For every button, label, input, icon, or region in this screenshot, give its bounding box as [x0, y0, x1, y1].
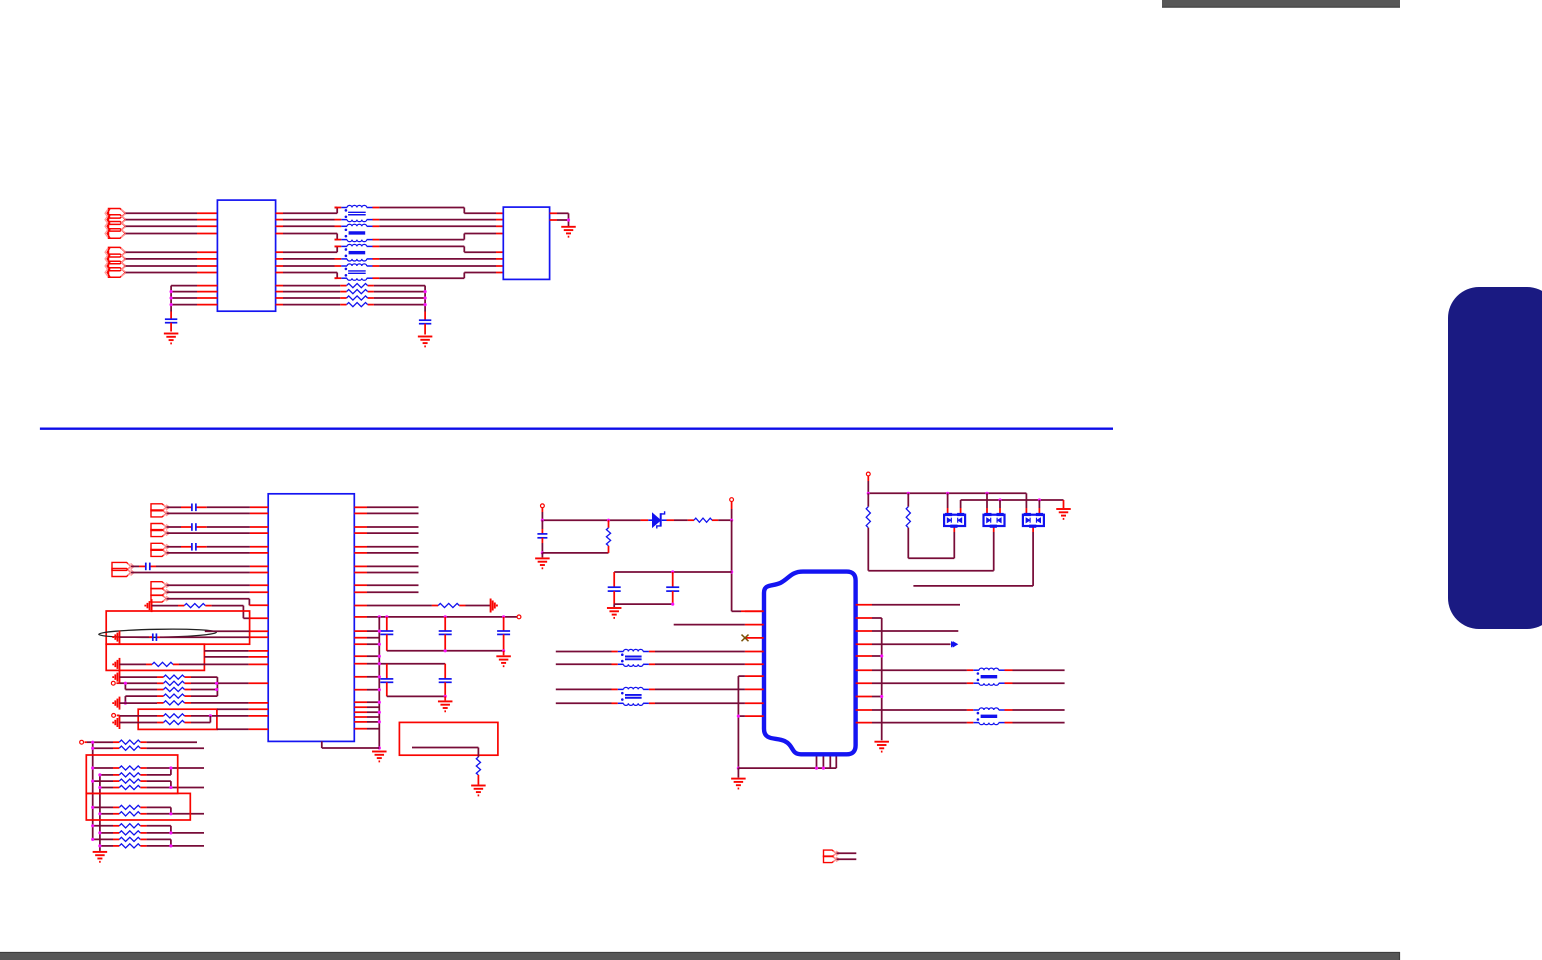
- resistor R-l787.5: [119, 785, 140, 789]
- resistor R-l839.4: [119, 837, 140, 841]
- capacitor C-in3: [192, 543, 196, 551]
- wire box3 row1 leads: [157, 715, 191, 717]
- wire U2 stub y728.7: [354, 728, 379, 730]
- junction circleA: [124, 682, 127, 685]
- wire ladder row2 out: [147, 747, 204, 749]
- RJ45 right pin y722.6: [856, 722, 872, 724]
- resistor R-l807.4: [119, 805, 140, 809]
- wire resbank row2 left lead: [157, 682, 191, 684]
- wire vcc bottom rail: [387, 650, 504, 652]
- RJ45 left pin y689.4: [745, 688, 764, 690]
- off-page connector group2 pin 4: [105, 268, 126, 278]
- junction rightbus y748.0: [378, 746, 381, 749]
- junction rightbus y702.2: [378, 701, 381, 704]
- junction top-right gnd: [567, 218, 570, 221]
- RJ45 right pin y656.0: [856, 655, 872, 657]
- resistor R-l742.2: [119, 740, 140, 744]
- wire bubble to U1 row y213.3: [126, 212, 218, 214]
- ground (jack shield): [731, 779, 746, 789]
- junction bus2 y774.9: [98, 773, 101, 776]
- resistor R-l768.0: [119, 766, 140, 770]
- junction tvsrail 947: [946, 492, 949, 495]
- wire resbank row1 from gnd: [120, 676, 158, 678]
- red highlight box 1: [106, 611, 249, 644]
- pin circle P3: [866, 472, 870, 476]
- resistor R-b5: [164, 701, 185, 705]
- wire ladder row y839.4 leads: [93, 838, 147, 840]
- junction clusterB: [444, 695, 447, 698]
- ground (right termination): [418, 337, 433, 347]
- wire ladder row y832.9 leads: [100, 832, 147, 834]
- net row 6 right wire: [372, 258, 503, 260]
- junction tvsrail2 1000: [998, 498, 1001, 501]
- wire U2 stub y676.8: [354, 676, 379, 678]
- junction shield1: [815, 767, 818, 770]
- wire cap1 to bottom: [541, 538, 543, 553]
- wire pair1 top through cap: [167, 506, 269, 508]
- wire boxR resistor to gnd: [477, 775, 479, 785]
- wire U2 right stub 9: [354, 584, 418, 586]
- wire resbank row5 left lead: [157, 702, 191, 704]
- wire pair2 top through cap: [167, 526, 269, 528]
- ground (ladder): [93, 852, 108, 862]
- resistor R-t4: [347, 303, 368, 307]
- wire T6 left leads: [556, 689, 618, 703]
- wire gnd-resistor row 664.4 to U2: [120, 663, 269, 665]
- capacitor C-m1: [608, 587, 621, 591]
- wire tvs rail1 stems: [948, 493, 1027, 514]
- resistor R-c1: [164, 714, 185, 718]
- junction rightbus y663.7: [378, 662, 381, 665]
- ground (U2 bus): [372, 752, 387, 762]
- resistor R-boxR: [476, 757, 480, 775]
- transformer T7: [973, 668, 1004, 685]
- RJ45 right pin y644.3: [856, 643, 872, 645]
- wire input4 bottom: [131, 572, 268, 574]
- capacitor C-m2 stems: [672, 572, 674, 587]
- wire U2 stub y663.7: [354, 663, 379, 665]
- wire box3 row2 leads: [157, 722, 191, 724]
- ground (left termination): [164, 334, 179, 344]
- junction bus1 y781.1: [91, 780, 94, 783]
- resistor R-b4: [164, 694, 185, 698]
- junction rightbus y712.2: [378, 711, 381, 714]
- pin circle A: [111, 681, 115, 685]
- wire ladder rows9-10 join: [147, 826, 204, 833]
- wire U2 VCC rail: [354, 616, 517, 618]
- ground (jack right bus): [874, 742, 889, 752]
- wire tvs rail2 gnd stem: [1063, 500, 1065, 508]
- capacitor C-v2: [439, 631, 452, 634]
- wire resistor Rp stems: [608, 520, 610, 553]
- transformer T8: [973, 708, 1004, 725]
- resistor R-l781.1: [119, 779, 140, 783]
- wire R-tv1 bottom to TVS2: [868, 528, 993, 571]
- resistor R-l813.8: [119, 812, 140, 816]
- wire U2 right stub 7: [354, 565, 418, 567]
- wire pair1 bottom: [167, 512, 269, 514]
- off-page connector pair3 b: [151, 549, 170, 556]
- wire U2 stub y712.2: [354, 711, 379, 713]
- capacitor C-in1: [192, 504, 196, 512]
- net row 5 right wire: [372, 246, 503, 252]
- net row 1 left wire: [276, 208, 342, 214]
- wire jack right row 604.8 stub: [872, 604, 960, 606]
- wire input5 row3 jog down: [167, 599, 269, 606]
- off-page connector pair1 a: [151, 504, 170, 511]
- junction vccbot1: [444, 649, 447, 652]
- diode D1 anode lead: [641, 519, 649, 521]
- wire resbank row3 right: [191, 689, 217, 691]
- capacitor C-v2 stem2: [444, 634, 446, 650]
- wire tvs rail2 stems: [961, 500, 1040, 515]
- wire ladder row y742.2 leads: [93, 741, 147, 743]
- wire ladder bus2: [99, 775, 101, 851]
- wire J1 pin to ground net: [550, 213, 569, 220]
- ground (top right): [561, 227, 576, 237]
- wire jack gnd stem: [737, 768, 739, 778]
- wire U2 stub y631.1: [354, 630, 379, 632]
- junction vccrail x445.2: [444, 615, 447, 618]
- RJ45 right pin y604.8: [856, 604, 872, 606]
- capacitor C-w1: [380, 679, 393, 682]
- wire ladder rows3-4 join: [147, 768, 204, 775]
- junction mid rail: [730, 570, 733, 573]
- junction tvsrail 987: [985, 492, 988, 495]
- wire bubble to U1 row y258.9: [126, 258, 218, 260]
- wire T7 right leads: [1005, 670, 1065, 683]
- wire P1 stem: [541, 508, 543, 521]
- resistor R-tv2 stems: [907, 493, 909, 506]
- capacitor C-w2 stem: [444, 664, 446, 679]
- wire ladder row y813.8 leads: [100, 813, 147, 815]
- IC J1 (top right): [503, 207, 549, 279]
- RJ45 left pin y651.5: [745, 651, 764, 653]
- RJ45 shield pins: [817, 757, 837, 769]
- off-page connector group2 pin 3: [105, 261, 126, 271]
- IC U2 (PHY, bottom left): [268, 494, 354, 742]
- wire ladder row y845.9 leads: [100, 845, 147, 847]
- wire T6 right leads: [649, 689, 745, 703]
- junction jrbus 656: [880, 654, 883, 657]
- ground (right antenna): [491, 599, 497, 613]
- junction bus1 y748.2: [91, 747, 94, 750]
- diode array D-t2: [984, 513, 1005, 528]
- wire gnd-resistor row to U2: [152, 606, 269, 619]
- wire ladder row y748.2 leads: [93, 747, 147, 749]
- ground (tvs): [1056, 509, 1071, 519]
- junction ladder34: [169, 766, 172, 769]
- diode D1 cathode wire + resistor R-d: [667, 519, 732, 521]
- wire U2 right stub 5: [354, 546, 418, 548]
- junction bus2 y845.9: [98, 844, 101, 847]
- top header bar: [1162, 0, 1400, 8]
- junction bus2 y813.8: [98, 812, 101, 815]
- wire U2 right stub 8: [354, 572, 418, 574]
- net row 7 right wire: [372, 265, 503, 267]
- capacitor C-v1 stem: [386, 617, 388, 631]
- junction rightbus y631.1: [378, 630, 381, 633]
- RJ45 left pin y664.3: [745, 663, 764, 665]
- wire circleA to rows 683/689: [116, 683, 157, 689]
- junction vccrail x379.3: [378, 615, 381, 618]
- wire U2 right bus: [378, 617, 380, 748]
- resistor R-c2: [164, 720, 185, 724]
- net row 5 left wire: [276, 246, 342, 252]
- off-page connector pair3 a: [151, 543, 170, 550]
- off-page connector E a: [824, 850, 840, 857]
- wire U2 stub y717.0: [354, 716, 379, 718]
- wire TVS3 bottom out: [913, 528, 1033, 586]
- wire U2 stub y721.9: [354, 721, 379, 723]
- junction tvsrail 868: [867, 492, 870, 495]
- wire row 709.3 to U2: [217, 708, 268, 710]
- net row 7 left wire: [276, 265, 342, 267]
- RJ45 left pin y703.3: [745, 702, 764, 704]
- junction row4-5 left: [124, 702, 127, 705]
- wire input4 top through cap: [131, 565, 268, 567]
- wire resbank row1 right L to row4: [191, 677, 217, 696]
- wire right bus: [424, 286, 426, 321]
- wire U2 right stub 10: [354, 591, 418, 593]
- ground (vcc caps): [496, 656, 511, 666]
- wire in boxR: [412, 748, 478, 758]
- wire U1 low row 4 right: [276, 304, 426, 306]
- wire cap to ground (left): [170, 323, 172, 332]
- resistor R-d: [694, 518, 712, 522]
- red highlight box 3: [138, 709, 217, 729]
- junction rightbus y689.7: [378, 688, 381, 691]
- wire T5 right leads: [649, 652, 745, 665]
- wire clusterB bottom rail: [387, 695, 445, 697]
- wire ladder row y825.8 leads: [93, 825, 147, 827]
- junction bus1 y839.4: [91, 838, 94, 841]
- capacitor C-w1 stem: [386, 664, 388, 679]
- red highlight box B (ladder): [86, 793, 190, 820]
- wire ladder rows7-8 join: [147, 807, 204, 813]
- capacitor C-v3 stem: [503, 617, 505, 631]
- ground (power): [535, 558, 550, 568]
- junction ladder56: [169, 786, 172, 789]
- diode array D-t1: [944, 513, 965, 528]
- wire U2 stub y637.7: [354, 637, 379, 639]
- wire cap to ground (right): [424, 324, 426, 335]
- junction p-rail1: [541, 519, 544, 522]
- RJ45 right pin y683.2: [856, 682, 872, 684]
- wire U2 resistor row 605.5: [354, 605, 490, 607]
- wire T8 left leads: [872, 710, 973, 723]
- junction rightbus y644.2: [378, 643, 381, 646]
- capacitor C-m2 stem2: [672, 591, 674, 604]
- ground (left G4): [113, 697, 119, 710]
- pin circle P2: [730, 498, 734, 502]
- ground (mid caps): [607, 608, 622, 618]
- wire ladder rows11-12 join: [147, 839, 204, 846]
- net row 8 right wire: [372, 273, 503, 279]
- wire ladder bus1: [92, 742, 94, 839]
- wire cap1 stem: [541, 520, 543, 534]
- resistor R-tv2: [906, 507, 910, 528]
- net row 6 left wire: [276, 258, 342, 260]
- wire ladder row y787.5 leads: [100, 787, 147, 789]
- resistor R-tv1 stems: [867, 493, 869, 506]
- capacitor C-v1: [380, 631, 393, 634]
- wire U2 stub y644.2: [354, 643, 379, 645]
- junction rightbus y676.8: [378, 675, 381, 678]
- wire U2 stub y656.2: [354, 655, 379, 657]
- wire U2 right stub 2: [354, 512, 418, 514]
- junction row3 x216: [215, 688, 218, 691]
- off-page connector pair1 b: [151, 510, 170, 517]
- resistor R-b3: [164, 687, 185, 691]
- wire bubble to U1 row y266.0: [126, 265, 218, 267]
- capacitor C-left (top circuit): [165, 319, 177, 323]
- resistor R-p: [606, 528, 610, 546]
- wire box3 drop link: [191, 716, 210, 723]
- off-page connector 5-1: [151, 582, 170, 589]
- pin circle P1: [541, 504, 545, 508]
- wire stub row 631.2: [205, 630, 268, 632]
- wire U1 low rows to left bus: [171, 286, 217, 320]
- wire ladder row y807.4 leads: [93, 806, 147, 808]
- off-page connector group2 pin 1: [105, 247, 126, 257]
- wire shield rail: [738, 767, 836, 769]
- no-connect X: [742, 635, 749, 642]
- capacitor C-m1 stems: [613, 572, 615, 587]
- wire tvs rail2: [961, 499, 1064, 501]
- wire U1 low row 3 right: [276, 297, 426, 299]
- capacitor C-v1 stem2: [386, 634, 388, 650]
- resistor R-l774.9: [119, 773, 140, 777]
- wire gnd-cap row to U2 pin 637.4: [120, 636, 269, 638]
- wire E stubs: [837, 853, 857, 859]
- transformer T2: [341, 224, 372, 241]
- resistor R-l825.8: [119, 824, 140, 828]
- off-page connector pair2 b: [151, 530, 170, 537]
- wire P2 down to jack: [732, 520, 764, 611]
- RJ45 left pin y676.1: [745, 675, 764, 677]
- RJ45 left pin y611.3: [745, 610, 764, 612]
- wire clusterB gnd stem: [444, 696, 446, 700]
- junction left bus y304.6: [170, 303, 173, 306]
- wire resbank row4 left lead: [157, 695, 191, 697]
- RJ45 left pin y624.6: [745, 624, 764, 626]
- net row 8 left wire: [276, 273, 342, 279]
- wire bubble to U1 row y226.3: [126, 225, 218, 227]
- wire ladder row y781.1 leads: [93, 780, 147, 782]
- net row 3 right wire: [372, 225, 503, 227]
- ground (left G3): [113, 671, 119, 684]
- ground (left G1): [145, 599, 151, 612]
- capacitor C-w2 stem2: [444, 682, 446, 696]
- capacitor C-m2: [666, 587, 679, 591]
- wire resbank row4 right: [191, 695, 217, 697]
- junction right bus y304.6: [424, 303, 427, 306]
- wire bubble to U1 row y252.2: [126, 251, 218, 253]
- junction box3: [209, 714, 212, 717]
- RJ45 left pin y637.9: [745, 637, 764, 639]
- junction ladder1112: [169, 844, 172, 847]
- wire jack right row 696.5 to bus: [872, 696, 882, 698]
- resistor R-l748.2: [119, 746, 140, 750]
- wire box2 row 656.9 to U2: [204, 656, 268, 658]
- IC U1 (top left): [217, 200, 275, 311]
- off-page connector E b: [824, 856, 840, 863]
- capacitor C-w2: [439, 679, 452, 682]
- net row 2 right wire: [372, 219, 503, 221]
- junction rightbus y656.2: [378, 655, 381, 658]
- resistor R-t2: [347, 290, 368, 294]
- junction tvsrail2 1039: [1038, 498, 1041, 501]
- RJ45 right pin y631.0: [856, 630, 872, 632]
- blue arrow terminal: [952, 642, 955, 647]
- net row 3 left wire: [276, 225, 342, 227]
- wire power rail: [542, 519, 640, 521]
- junction p-rail3: [730, 519, 733, 522]
- junction rightbus y721.9: [378, 720, 381, 723]
- wire jack right row 644.3 with arrow: [872, 643, 951, 645]
- RJ45 right pin y696.5: [856, 696, 872, 698]
- junction right bus y291.6: [424, 290, 427, 293]
- wire input5 row1: [167, 584, 269, 586]
- RJ45 left pin y716.1: [745, 715, 764, 717]
- ground (clusterB): [438, 701, 453, 711]
- wire U1 low row 2 right: [276, 291, 426, 293]
- transformer T3: [341, 244, 372, 261]
- wire U2 stub y702.2: [354, 701, 379, 703]
- off-page connector 5-2: [151, 588, 170, 595]
- junction vccbot2: [502, 649, 505, 652]
- junction right bus y298.0: [424, 296, 427, 299]
- capacitor C-in4: [146, 563, 150, 571]
- wire jack left bus: [738, 676, 745, 768]
- capacitor C-v3 stem2: [503, 634, 505, 650]
- pin circle VCC: [517, 615, 521, 619]
- junction bus1 y825.8: [91, 824, 94, 827]
- net row 4 right wire: [372, 234, 503, 240]
- wire R-tv2 bottom to TVS1: [908, 528, 954, 559]
- section separator line: [40, 428, 1113, 430]
- pin circle B: [112, 714, 116, 718]
- wire P3 stem: [867, 476, 869, 493]
- capacitor C-v2 stem: [444, 617, 446, 631]
- junction left bus y291.6: [170, 290, 173, 293]
- capacitor C-p1: [537, 534, 547, 538]
- transformer T1: [341, 205, 372, 221]
- wire jack right row 656 to bus: [872, 655, 882, 657]
- junction ladder78: [169, 812, 172, 815]
- red highlight box A (ladder): [86, 755, 177, 793]
- off-page connector group2 pin 2: [105, 254, 126, 264]
- red highlight box R: [399, 722, 498, 755]
- resistor R-r1: [438, 603, 459, 607]
- wire T5 left leads: [556, 652, 618, 665]
- wire pair2 bottom: [167, 532, 269, 534]
- wire U2 right stub 1: [354, 506, 418, 508]
- wire pair3 top through cap: [167, 546, 269, 548]
- off-page connector 4a: [112, 562, 134, 570]
- net row 2 left wire: [276, 219, 342, 221]
- off-page connector 4b: [112, 569, 134, 577]
- wire ladder row1 out: [147, 741, 197, 743]
- wire p gnd stem: [541, 553, 543, 558]
- junction bus1 y742.2: [91, 741, 94, 744]
- RJ45 right pin y670.2: [856, 669, 872, 671]
- capacitor C-m1 stem2: [613, 591, 615, 604]
- resistor R-g1: [184, 604, 205, 608]
- ground (in box2): [113, 658, 119, 671]
- wire pair3 bottom: [167, 552, 269, 554]
